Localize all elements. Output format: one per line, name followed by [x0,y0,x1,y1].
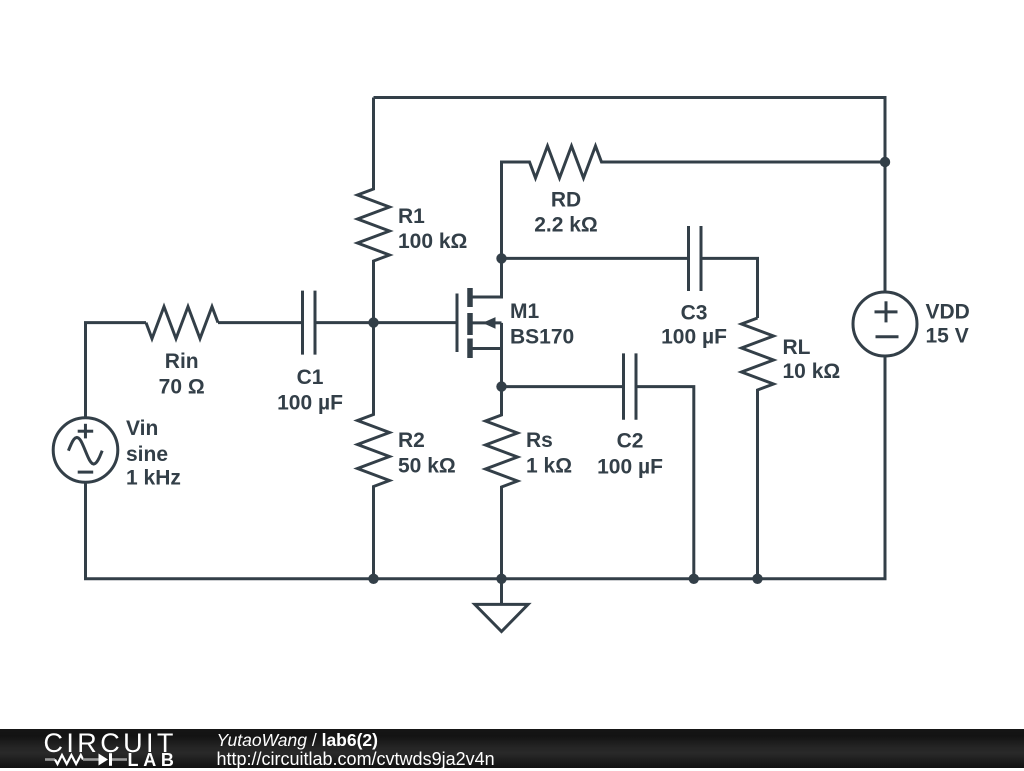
resistor Rs (source) [486,387,518,579]
svg-text:Rin: Rin [165,350,199,373]
svg-text:Rs: Rs [526,429,553,452]
svg-text:sine: sine [126,443,168,466]
node: drain junction [496,253,506,263]
label Rin 70 &#937; [159,350,205,398]
svg-text:R1: R1 [398,205,425,228]
svg-text:50 kΩ: 50 kΩ [398,455,456,478]
capacitor C3 [689,226,702,291]
capacitor C1 [303,291,316,355]
node: RD to VDD rail junction [880,157,890,167]
svg-text:Vin: Vin [126,417,158,440]
wire: drain node to C3 [502,257,688,260]
resistor R1 [358,98,390,323]
resistor RL (load) [742,318,774,579]
svg-text:2.2 kΩ: 2.2 kΩ [534,213,598,236]
svg-text:10 kΩ: 10 kΩ [783,360,841,383]
wire: Rin to C1 [218,321,301,324]
resistor Rin [146,307,218,339]
svg-text:100 µF: 100 µF [661,326,727,349]
footer bar [0,729,1024,768]
footer title: YutaoWang / lab6(2) [217,730,378,751]
wire: C3 to RL top [703,258,758,318]
svg-text:VDD: VDD [926,301,970,324]
label Vin sine 1 kHz [126,417,181,489]
wire: Vin bottom to ground rail [86,356,886,579]
svg-text:R2: R2 [398,429,425,452]
label RD 2.2 k&#937; [534,189,598,237]
ground symbol [475,579,528,632]
svg-text:BS170: BS170 [510,326,574,349]
label C2 100 &#181;F [597,430,663,479]
svg-text:70 Ω: 70 Ω [159,376,205,399]
wire: C1 to gate of M1 [317,321,457,324]
svg-text:RL: RL [783,336,811,359]
node: source junction [496,381,506,391]
wire: Vin to gate input net [86,323,147,418]
transistor M1 BS170 (NMOS) [457,258,502,386]
svg-text:100 µF: 100 µF [597,455,663,478]
label R2 50 k&#937; [398,429,456,478]
svg-text:M1: M1 [510,300,539,323]
footer URL [217,749,495,770]
svg-text:15 V: 15 V [926,325,969,348]
label C3 100 &#181;F [661,302,727,349]
svg-text:1 kHz: 1 kHz [126,466,181,489]
svg-text:C1: C1 [297,366,324,389]
label Rs 1 k&#937; [526,429,572,478]
label C1 100 &#181;F [277,366,343,415]
node: R2 bottom junction [368,574,378,584]
svg-text:100 kΩ: 100 kΩ [398,230,467,253]
voltage source Vin (sine) [53,418,118,483]
voltage source VDD 15V [853,292,917,356]
svg-text:RD: RD [551,189,581,212]
CircuitLab logo text CIRCUIT [44,728,177,759]
svg-text:1 kΩ: 1 kΩ [526,455,572,478]
svg-text:C3: C3 [681,302,708,325]
resistor RD (drain) [502,146,886,258]
CircuitLab logo text LAB [128,750,179,771]
label M1 BS170 [510,300,574,348]
wire: source node to C2 [502,385,623,388]
node: RL bottom junction [752,574,762,584]
node: gate / R1 / R2 junction [368,317,378,327]
wire: C2 down to ground rail [638,387,694,579]
CircuitLab logo symbol (resistor + diode) [44,751,130,768]
label R1 100 k&#937; [398,205,467,253]
svg-text:100 µF: 100 µF [277,392,343,415]
wire: top rail from R1 top to VDD branch [374,98,886,293]
node: C2 bottom junction [689,574,699,584]
svg-text:C2: C2 [617,430,644,453]
resistor R2 [358,323,390,579]
capacitor C2 [624,353,637,419]
label VDD 15 V [926,301,970,348]
node: Rs/ground junction [496,574,506,584]
label RL 10 k&#937; [783,336,841,383]
